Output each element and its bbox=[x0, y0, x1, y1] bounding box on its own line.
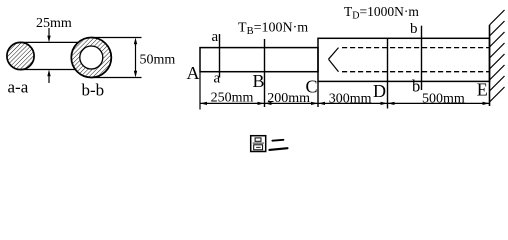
svg-text:A: A bbox=[187, 63, 200, 83]
svg-text:D: D bbox=[373, 81, 386, 101]
svg-text:a: a bbox=[212, 29, 219, 45]
svg-text:200mm: 200mm bbox=[267, 91, 310, 106]
svg-text:B: B bbox=[253, 71, 265, 91]
svg-text:25mm: 25mm bbox=[36, 16, 72, 31]
svg-text:C: C bbox=[306, 76, 318, 96]
svg-text:300mm: 300mm bbox=[329, 92, 372, 107]
svg-text:TB=100N·m: TB=100N·m bbox=[238, 21, 308, 38]
svg-text:250mm: 250mm bbox=[211, 91, 254, 106]
svg-text:500mm: 500mm bbox=[422, 92, 465, 107]
svg-text:a: a bbox=[214, 71, 221, 87]
svg-text:50mm: 50mm bbox=[140, 53, 176, 68]
svg-text:b: b bbox=[410, 21, 418, 37]
svg-text:a-a: a-a bbox=[8, 78, 29, 97]
svg-text:TD=1000N·m: TD=1000N·m bbox=[344, 4, 419, 22]
svg-text:b: b bbox=[412, 77, 420, 96]
svg-text:E: E bbox=[477, 80, 488, 100]
svg-text:b-b: b-b bbox=[82, 81, 105, 100]
